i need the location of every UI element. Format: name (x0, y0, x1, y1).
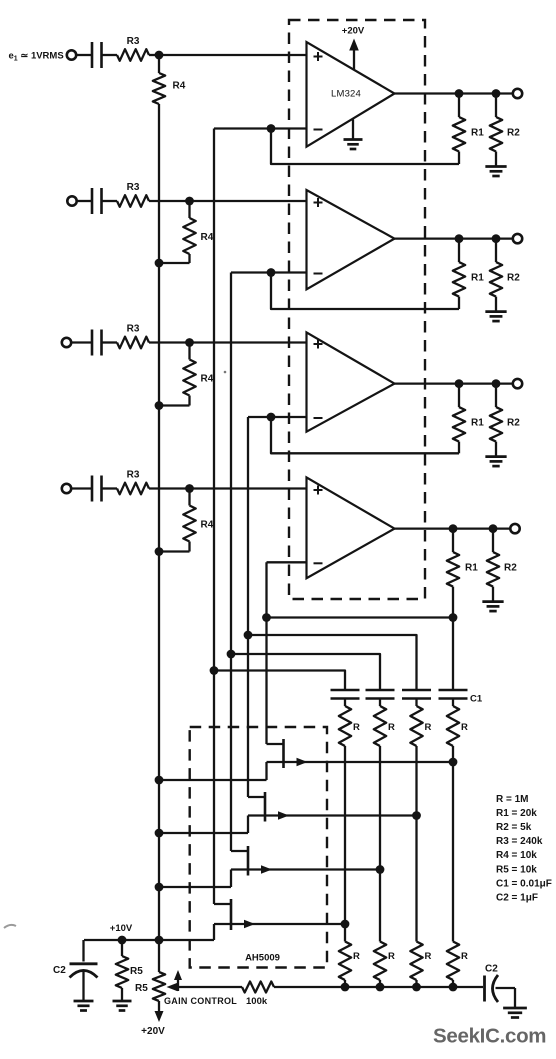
label R upper column 2 (388, 722, 395, 733)
wire wiper to 100k (177, 986, 242, 988)
svg-text:100k: 100k (246, 996, 268, 1007)
svg-text:AH5009: AH5009 (245, 953, 280, 964)
wire column 2 middle (379, 746, 381, 870)
label R2 ch3 (507, 418, 520, 429)
svg-text:C2: C2 (53, 965, 66, 976)
svg-text:R3 = 240k: R3 = 240k (496, 836, 543, 847)
junction dot R4-bus ch2 (155, 259, 164, 268)
capacitor C1 section 4 (439, 690, 468, 699)
label R2 ch2 (507, 273, 520, 284)
capacitor C2 right (485, 975, 516, 1002)
gain control up arrow (174, 970, 182, 991)
junction dot bottom bus column 2 (376, 983, 385, 992)
label R lower column 3 (425, 951, 432, 962)
FET Q4 channel bar (230, 899, 233, 930)
svg-text:R1: R1 (471, 128, 484, 139)
wire R1 bottom ch4 (452, 587, 454, 618)
wire output ch2 (395, 237, 513, 239)
wire feedback bus ch2 (230, 273, 232, 852)
wire C to R3 ch2 (102, 200, 118, 202)
junction dot FET-column 4 (449, 758, 458, 767)
junction dot FET-column 1 (341, 920, 350, 929)
svg-text:R4: R4 (201, 232, 214, 243)
svg-text:R2: R2 (504, 563, 517, 574)
resistor R1 ch3 (453, 384, 465, 442)
label R4 ch1 (173, 81, 186, 92)
resistor R upper column 1 (339, 699, 351, 747)
label AH5009 (245, 953, 280, 964)
resistor R lower column 1 (339, 942, 351, 988)
svg-text:R4: R4 (173, 81, 186, 92)
wire tee ch4 to column 4 (267, 616, 454, 618)
label R4 ch2 (201, 232, 214, 243)
svg-text:R: R (425, 722, 432, 733)
label R4 ch4 (201, 520, 214, 531)
label R3 ch2 (127, 182, 140, 193)
junction dot output-R2 ch4 (489, 524, 498, 533)
wire input to C ch4 (71, 487, 92, 489)
FET Q1 drain jog (267, 743, 284, 745)
FET Q2 gate jog (159, 816, 248, 834)
capacitor C1 section 3 (402, 690, 431, 699)
svg-text:R1: R1 (471, 418, 484, 429)
label R2 ch1 (507, 128, 520, 139)
resistor R upper column 2 (374, 699, 386, 747)
svg-text:R1: R1 (465, 563, 478, 574)
junction dot output-R1 ch3 (455, 379, 464, 388)
scan artifact tick (224, 371, 227, 374)
svg-text:C2: C2 (485, 964, 498, 975)
junction dot gate Q1 (155, 776, 164, 785)
wire inverting input ch2 (231, 271, 307, 273)
capacitor C1 section 1 (331, 690, 360, 699)
wire column 1 middle (344, 746, 346, 924)
svg-text:R = 1M: R = 1M (496, 794, 529, 805)
junction dot R4-bus ch3 (155, 401, 164, 410)
resistor R3 ch4 (117, 483, 149, 495)
FET Q2 drain jog (248, 796, 265, 798)
capacitor input coupling ch1 (92, 42, 102, 68)
ground R2 ch1 (485, 167, 506, 177)
label R1 ch4 (465, 563, 478, 574)
wire node to +input ch2 (190, 200, 307, 202)
svg-text:R4: R4 (201, 374, 214, 385)
junction dot output-R1 ch2 (455, 234, 464, 243)
svg-text:C2 = 1μF: C2 = 1μF (496, 892, 538, 903)
wire tee ch2 to column 2 (231, 654, 380, 690)
svg-text:+20V: +20V (342, 26, 365, 37)
junction dot FET-column 3 (412, 811, 421, 820)
svg-text:e1 ≃ 1VRMS: e1 ≃ 1VRMS (9, 51, 64, 63)
svg-text:R5 = 10k: R5 = 10k (496, 864, 537, 875)
wire C2 to ground (514, 988, 516, 1008)
ground R2 ch3 (485, 457, 506, 467)
wire column 3 middle (415, 746, 417, 816)
wire node to +input ch4 (190, 487, 307, 489)
input terminal ch1 (67, 50, 76, 59)
resistor R lower column 3 (410, 942, 422, 988)
resistor R2 ch4 (487, 529, 499, 602)
svg-text:SeekIC.com: SeekIC.com (433, 1025, 546, 1048)
wire output ch1 (395, 92, 513, 94)
+20V supply arrow (349, 39, 359, 70)
junction dot output-R2 ch2 (492, 234, 501, 243)
label R3 ch1 (127, 36, 140, 47)
label R1 ch1 (471, 128, 484, 139)
resistor R3 ch3 (117, 337, 149, 349)
svg-text:R2 = 5k: R2 = 5k (496, 822, 532, 833)
junction dot output-R2 ch3 (492, 379, 501, 388)
FET Q3 channel bar (247, 846, 250, 876)
capacitor input coupling ch4 (92, 476, 102, 502)
wire feedback bus ch1 (213, 129, 215, 905)
wire C to R3 ch3 (102, 341, 118, 343)
resistor R4 ch2 (183, 201, 195, 263)
wire tee ch1 to column 1 (214, 671, 345, 691)
wire node to +input ch1 (159, 54, 307, 56)
svg-text:R: R (425, 951, 432, 962)
ground C2 right (503, 1008, 527, 1018)
junction dot bus tee ch4 (262, 613, 271, 622)
node dot input ch2 (185, 197, 194, 206)
wire column 4 lower (452, 762, 454, 942)
resistor R4 ch1 (153, 55, 165, 104)
capacitor C2 left (70, 940, 98, 1001)
svg-text:R3: R3 (127, 324, 140, 335)
op-amp ch4 (307, 477, 395, 578)
component value list (496, 794, 552, 903)
ground R2 ch4 (482, 602, 503, 612)
wire R3 to node ch4 (149, 487, 190, 489)
dashed outline LM324 quad package U1 (289, 20, 425, 599)
ground C2 left (74, 1001, 94, 1011)
svg-text:R3: R3 (127, 182, 140, 193)
wire input to C ch2 (77, 200, 92, 202)
input terminal ch4 (62, 484, 71, 493)
svg-text:R4: R4 (201, 520, 214, 531)
FET Q1 source line with arrow (267, 758, 454, 766)
svg-text:+20V: +20V (141, 1026, 165, 1037)
label R lower column 4 (461, 951, 468, 962)
label R5 gain pot (135, 983, 148, 994)
junction dot feedback ch1 (267, 124, 276, 133)
input terminal ch3 (62, 338, 71, 347)
FET Q3 drain jog (231, 850, 248, 852)
svg-text:C1: C1 (470, 694, 483, 705)
junction dot FET-column 2 (376, 865, 385, 874)
label +10V (110, 923, 133, 934)
resistor R3 ch2 (117, 195, 149, 207)
junction dot bus tee ch2 (227, 650, 236, 659)
svg-text:R3: R3 (127, 470, 140, 481)
arrow to +20V (155, 1011, 164, 1022)
output terminal ch4 (510, 524, 519, 533)
FET Q1 channel bar (282, 739, 285, 768)
wire inverting input ch3 (248, 416, 307, 418)
node dot input ch3 (185, 338, 194, 347)
label R5 bias (130, 966, 143, 977)
svg-text:R: R (461, 722, 468, 733)
svg-text:R1 = 20k: R1 = 20k (496, 808, 537, 819)
svg-text:R: R (353, 951, 360, 962)
svg-text:R5: R5 (135, 983, 148, 994)
capacitor C1 section 2 (366, 690, 395, 699)
wire R4 to bus ch4 (159, 550, 190, 552)
FET Q4 drain jog (214, 903, 231, 905)
svg-text:R5: R5 (130, 966, 143, 977)
svg-text:R2: R2 (507, 273, 520, 284)
resistor R2 ch2 (490, 239, 502, 312)
label input e1 1VRMS (9, 51, 64, 63)
wire bottom bus (274, 986, 483, 988)
wire column 2 lower (379, 870, 381, 942)
junction dot output-R2 ch1 (492, 89, 501, 98)
FET Q2 channel bar (264, 792, 267, 822)
label R upper column 1 (353, 722, 360, 733)
resistor R2 ch3 (490, 384, 502, 457)
wire R3 to node ch3 (149, 341, 190, 343)
label LM324 (331, 89, 361, 100)
svg-text:R2: R2 (507, 128, 520, 139)
resistor R4 ch3 (183, 343, 195, 406)
FET Q4 source line with arrow (214, 920, 345, 928)
resistor 100k (242, 982, 274, 993)
node dot input ch1 (155, 51, 164, 60)
label R lower column 1 (353, 951, 360, 962)
wire R1 feedback ch2 (271, 273, 459, 310)
resistor R upper column 3 (410, 699, 422, 747)
wire inverting input ch4 (267, 561, 307, 563)
junction dot bus tee ch1 (210, 666, 219, 675)
label R upper column 3 (425, 722, 432, 733)
resistor R upper column 4 (447, 699, 459, 747)
output terminal ch2 (513, 234, 522, 243)
FET Q4 gate jog (213, 924, 215, 940)
FET Q2 source line with arrow (248, 811, 417, 819)
wire output ch4 (395, 527, 511, 529)
wire inverting input ch1 (214, 127, 307, 129)
wire node to +input ch3 (190, 341, 307, 343)
wire column 4 middle (452, 746, 454, 762)
potentiometer wiper arrow (167, 983, 178, 992)
op-amp ch3 (307, 332, 395, 431)
resistor R lower column 2 (374, 942, 386, 988)
wire C to R3 ch1 (102, 54, 118, 56)
wire R1 feedback ch1 (271, 129, 459, 165)
resistor R lower column 4 (447, 942, 459, 988)
junction dot feedback ch2 (267, 268, 276, 277)
label C2 left (53, 965, 66, 976)
resistor R3 ch1 (117, 49, 149, 61)
junction dot R5 top (118, 936, 127, 945)
svg-text:R: R (388, 951, 395, 962)
label R2 ch4 (504, 563, 517, 574)
wire feedback bus ch4 (265, 562, 267, 744)
wire input to C ch3 (71, 341, 92, 343)
svg-text:C1 = 0.01μF: C1 = 0.01μF (496, 878, 552, 889)
wire column 4 upper (452, 618, 454, 691)
resistor R4 ch4 (183, 489, 195, 552)
junction dot column 4 top (449, 613, 458, 622)
wire +10V rail (84, 939, 214, 941)
svg-text:+10V: +10V (110, 923, 133, 934)
resistor R1 ch2 (453, 239, 465, 297)
output terminal ch3 (513, 379, 522, 388)
label R3 ch3 (127, 324, 140, 335)
label GAIN CONTROL (164, 996, 237, 1006)
svg-text:GAIN CONTROL: GAIN CONTROL (164, 996, 237, 1006)
input terminal ch2 (67, 196, 76, 205)
resistor R2 ch1 (490, 94, 502, 167)
resistor R1 ch1 (453, 94, 465, 152)
FET Q1 gate jog (159, 762, 267, 780)
svg-text:LM324: LM324 (331, 89, 361, 100)
node dot input ch4 (185, 484, 194, 493)
svg-text:R: R (388, 722, 395, 733)
label R1 ch3 (471, 418, 484, 429)
label C2 right (485, 964, 498, 975)
wire R1 feedback ch3 (271, 417, 459, 453)
wire R3 to node ch2 (149, 200, 190, 202)
label R1 ch2 (471, 273, 484, 284)
junction dot bottom bus column 1 (341, 983, 350, 992)
junction dot gate Q2 (155, 829, 164, 838)
junction dot output-R1 ch4 (449, 524, 458, 533)
svg-text:R: R (461, 951, 468, 962)
dashed outline AH5009 quad FET package U2 (190, 727, 327, 968)
wire R4 to bus ch3 (159, 404, 190, 406)
label R3 ch4 (127, 470, 140, 481)
ground op-amp U1 (344, 120, 363, 150)
ground R2 ch2 (485, 312, 506, 322)
junction dot feedback ch3 (267, 413, 276, 422)
resistor R5 bias (116, 940, 128, 1001)
junction dot bottom bus column 4 (449, 983, 458, 992)
svg-text:R4 = 10k: R4 = 10k (496, 850, 537, 861)
junction dot bus tee ch3 (244, 631, 253, 640)
wire feedback bus ch3 (247, 417, 249, 797)
svg-text:R3: R3 (127, 36, 140, 47)
label +20V (342, 26, 365, 37)
wire output ch3 (395, 382, 513, 384)
capacitor input coupling ch2 (92, 188, 102, 214)
wire R4 to bus ch2 (159, 262, 190, 264)
op-amp ch2 (307, 190, 395, 289)
label R4 ch3 (201, 374, 214, 385)
junction dot gate Q3 (155, 883, 164, 892)
ground R5 (113, 1001, 132, 1011)
label 100k (246, 996, 268, 1007)
wire column 1 lower (344, 924, 346, 942)
watermark SeekIC.com (433, 1025, 546, 1048)
output terminal ch1 (513, 89, 522, 98)
wire R3 to node ch1 (149, 54, 159, 56)
wire C to R3 ch4 (102, 487, 118, 489)
junction dot bottom bus column 3 (412, 983, 421, 992)
label R lower column 2 (388, 951, 395, 962)
resistor R1 ch4 (447, 529, 459, 587)
svg-text:R1: R1 (471, 273, 484, 284)
svg-text:R2: R2 (507, 418, 520, 429)
junction dot bus bottom (155, 936, 164, 945)
label C1 (470, 694, 483, 705)
junction dot R4-bus ch4 (155, 547, 164, 556)
capacitor input coupling ch3 (92, 330, 102, 356)
wire column 3 lower (415, 816, 417, 942)
svg-text:R: R (353, 722, 360, 733)
label +20V (141, 1026, 165, 1037)
FET Q3 source line with arrow (231, 865, 380, 873)
wire tee ch3 to column 3 (248, 635, 417, 690)
potentiometer R5 gain (153, 940, 165, 1012)
op-amp ch1 U1 LM324 (307, 42, 395, 147)
junction dot output-R1 ch1 (455, 89, 464, 98)
FET Q3 gate jog (159, 870, 231, 888)
wire input to C ch1 (76, 54, 92, 56)
wire bias bus vertical (158, 104, 160, 940)
label R upper column 4 (461, 722, 468, 733)
scan artifact squiggle (4, 925, 16, 928)
